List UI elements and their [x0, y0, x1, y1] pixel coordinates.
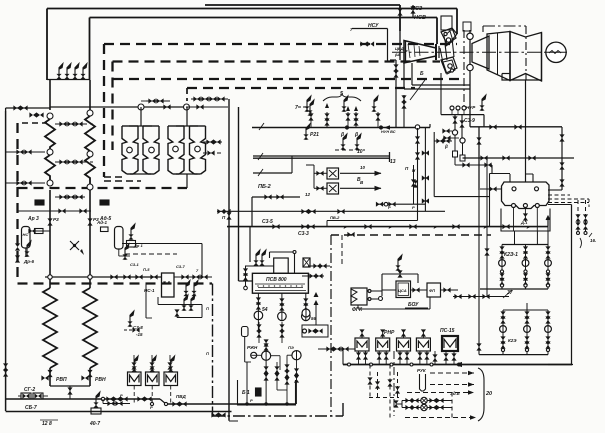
svg-text:П: П	[206, 351, 209, 356]
stub y276	[302, 273, 324, 278]
valve stack x277	[274, 362, 279, 390]
valve x455	[452, 116, 457, 123]
valves y227	[272, 224, 509, 229]
node bellows feed 1	[138, 104, 144, 110]
svg-text:П-5: П-5	[143, 267, 150, 272]
wire x479 drop	[478, 127, 480, 190]
wire main condensate y364	[343, 364, 572, 366]
labels on dashdot	[120, 306, 253, 410]
svg-text:РНР: РНР	[384, 330, 395, 336]
gland cluster circles	[450, 95, 486, 115]
gland circle 2	[460, 138, 465, 143]
deaerator vessel PSV-800	[252, 273, 308, 293]
svg-text:Б: Б	[420, 71, 424, 77]
LP condenser tub	[502, 74, 542, 81]
wire drop x404b	[403, 95, 405, 127]
valve x229 y215	[226, 212, 231, 219]
boiler column B main coil	[83, 288, 97, 368]
wire vertical x413	[411, 165, 416, 204]
PND3 vent	[401, 329, 406, 338]
dashed arrow 4	[405, 415, 476, 419]
drain pump 1	[262, 351, 271, 360]
label 54	[262, 307, 268, 313]
dashed reheat line 2	[113, 60, 441, 62]
valve stacks top	[256, 322, 284, 343]
bellows2 right valve stubs	[203, 139, 222, 144]
wire coil bottom bar	[50, 385, 90, 387]
svg-text:С3-9: С3-9	[464, 118, 475, 124]
wire fgk out bottom	[371, 298, 378, 300]
turbine HP body	[472, 36, 489, 69]
wire x229 to bottom	[229, 404, 238, 421]
heater PND-1	[355, 338, 369, 351]
bottom jog	[160, 399, 166, 404]
valves left edge bottom	[3, 363, 8, 376]
valves top of columns	[47, 217, 98, 226]
dashed reheat line 4	[187, 87, 415, 89]
stop valve linkage	[440, 28, 457, 74]
valve left stub a	[13, 105, 27, 110]
valve pair on dash-dot bottom	[211, 412, 225, 417]
valve cluster under A2	[55, 159, 85, 164]
svg-text:ПБ-2: ПБ-2	[258, 184, 271, 190]
wire NSU line	[350, 23, 388, 61]
wire x247 drop	[246, 362, 248, 404]
wire x202 drop	[201, 244, 203, 278]
svg-text:β: β	[444, 144, 448, 149]
dashed bellows bottom link 1	[104, 176, 126, 178]
safety flag valve 3	[72, 63, 79, 79]
label K2E-1	[504, 252, 518, 258]
svg-text:Р: Р	[389, 225, 392, 230]
PND3 legs	[397, 351, 409, 365]
svg-text:Р: Р	[250, 398, 253, 403]
wire vertical x238	[238, 107, 240, 281]
tank right bottom	[119, 244, 130, 260]
wire stub row y152	[6, 151, 45, 153]
bellows group1 top bar	[129, 125, 152, 127]
dashed arrow 1	[430, 371, 474, 375]
fgk ports	[368, 290, 371, 301]
extraction point circle 2	[467, 64, 473, 70]
dashed drain 3	[387, 365, 392, 421]
label NUNVS	[381, 130, 396, 134]
feed pump 2	[278, 312, 287, 321]
labels RVP RVN	[56, 377, 106, 383]
nodes y277	[48, 275, 92, 279]
dashed drain 1	[367, 365, 372, 398]
svg-text:РЖН: РЖН	[247, 345, 258, 350]
wire x413 link	[412, 5, 414, 18]
stop valve body lower	[441, 57, 457, 73]
dashed reheat line 3	[113, 78, 463, 80]
svg-text:β: β	[340, 132, 344, 138]
svg-text:С3-1: С3-1	[130, 262, 139, 267]
flags y310	[181, 295, 195, 311]
node bellows1 left	[127, 147, 133, 153]
frame B1	[238, 380, 296, 405]
wire k2e1 bottom bar	[480, 288, 548, 290]
svg-text:37: 37	[507, 290, 513, 296]
valve x462	[459, 120, 464, 127]
svg-text:К2Э: К2Э	[508, 338, 517, 343]
condenser drops	[514, 208, 538, 232]
gland left stubs	[442, 128, 459, 140]
bellows group2 top bar	[176, 125, 198, 127]
label PV-2	[330, 215, 340, 220]
node bou	[379, 297, 383, 301]
label BOU	[405, 302, 428, 308]
feed pump 3	[302, 312, 311, 321]
wire y364 left end	[342, 349, 344, 365]
vessel hatch dots	[258, 286, 303, 287]
condenser port 5	[535, 204, 539, 208]
valve stack x296	[294, 360, 299, 404]
wire bottom main 1	[6, 398, 160, 400]
svg-text:НСУ: НСУ	[368, 23, 379, 29]
wire y304	[158, 297, 202, 318]
valves on x404	[401, 95, 406, 108]
svg-text:ПВ-2: ПВ-2	[330, 215, 340, 220]
wire y127 ticks right	[489, 124, 521, 129]
heater PND-4	[416, 338, 430, 351]
condenser port 2	[535, 187, 539, 191]
wire line y220	[327, 211, 418, 226]
condenser port 4	[523, 204, 527, 208]
dashed blowdown header	[18, 282, 213, 284]
extraction riser valve 1	[304, 96, 313, 127]
deaerator top piping	[270, 251, 297, 274]
node bellows1 right	[149, 147, 155, 153]
deaerator drop 1	[256, 293, 261, 311]
PND4 vent	[421, 329, 426, 338]
HP heater PVD3	[164, 372, 178, 386]
SG-2 boxes	[18, 387, 48, 411]
svg-text:С3-7: С3-7	[176, 264, 185, 269]
label S3-3	[298, 231, 309, 237]
extraction riser valve 5	[371, 96, 380, 127]
valve cluster right of node2	[186, 96, 228, 109]
label RNR	[384, 330, 395, 336]
right cluster valves	[575, 214, 588, 234]
node B1	[87, 110, 93, 116]
deaerator dome	[274, 258, 289, 273]
PVD3 drain	[170, 386, 172, 405]
svg-text:54: 54	[262, 307, 268, 313]
dashed drain 2	[375, 372, 380, 398]
wire link y390	[277, 389, 287, 391]
brace 5	[323, 91, 361, 101]
svg-text:РВП: РВП	[56, 377, 67, 383]
wire vertical x229 low	[228, 227, 230, 420]
wire k2e2 bottom bar	[479, 354, 548, 356]
box FP	[427, 283, 441, 297]
wire bellows2 drop	[186, 174, 188, 188]
wire y197 drop	[251, 197, 253, 227]
tank left drop flag	[23, 241, 34, 264]
stop valve body upper	[441, 28, 456, 44]
wire x489 drop	[489, 174, 491, 228]
aux component x305	[303, 258, 310, 267]
PND1 vent	[359, 329, 364, 338]
svg-text:Ад-1: Ад-1	[96, 220, 108, 225]
extraction riser valve 3	[341, 96, 350, 127]
bellows2 right valve stubs b	[203, 150, 222, 155]
wire extraction line y197	[252, 196, 300, 198]
deaerator top flags	[245, 250, 274, 266]
label S3-9	[464, 118, 475, 124]
k2e2 pump column 1	[500, 310, 507, 355]
extraction point circle 1	[467, 33, 473, 39]
wire main steam line 2	[47, 9, 457, 81]
reheater bellows 1a	[122, 126, 138, 174]
wire x492 drop	[491, 165, 493, 174]
heater PND-3	[397, 338, 411, 351]
condenser port 1	[512, 187, 516, 191]
extraction riser valve 4	[353, 112, 358, 127]
k2e2 pump column 3	[545, 310, 552, 355]
tick y127	[259, 123, 264, 130]
PVD1 flag	[132, 356, 139, 372]
wire cold reheat y89	[404, 63, 470, 89]
svg-text:20: 20	[485, 391, 492, 397]
dash-dot x394	[393, 351, 395, 416]
svg-text:7: 7	[295, 105, 298, 111]
tank right top valvebox	[96, 220, 108, 232]
PVD3 flag	[168, 356, 175, 372]
box CSA	[396, 281, 411, 298]
feed pump 1	[254, 311, 263, 320]
HP heater PVD2	[146, 372, 160, 386]
turbine LP body	[510, 32, 542, 82]
wire line y204	[376, 202, 426, 207]
wire header y277	[45, 276, 162, 278]
b6 right line	[174, 274, 212, 279]
heater PS-15	[440, 328, 458, 351]
label K2E-2	[508, 338, 517, 343]
ticks y158	[480, 155, 535, 160]
dashed left drop	[15, 123, 20, 283]
node bellows2 right	[195, 146, 201, 152]
wire HP inlet from x457	[452, 34, 457, 40]
wire vertical x425	[422, 128, 429, 211]
label 20	[485, 391, 492, 397]
k2e1 pump column 2	[522, 245, 529, 290]
PND1 legs	[356, 351, 368, 365]
tank NS right	[115, 227, 124, 250]
svg-text:НУР: НУР	[466, 105, 476, 110]
svg-text:ПС-15: ПС-15	[440, 328, 455, 334]
bou bottom line	[358, 297, 430, 309]
valve stack x287	[284, 364, 289, 404]
valve between 4 and 5	[432, 351, 437, 365]
svg-text:РЗ: РЗ	[53, 217, 59, 222]
label LVD	[176, 394, 186, 399]
deaerator drop 3	[303, 293, 308, 312]
tick y173	[258, 169, 263, 176]
node A1	[47, 113, 53, 119]
wire safety-valve header	[47, 79, 90, 81]
k2e1 pump column 3	[545, 245, 552, 290]
boiler column B upper coil	[85, 116, 95, 184]
wire gland line y158	[463, 157, 575, 159]
gland circle 1	[452, 130, 457, 135]
node y127 x417	[415, 125, 419, 129]
PS15 legs	[443, 351, 456, 365]
wire deaerator feed drop	[249, 227, 251, 262]
HP heater PVD1	[128, 372, 142, 386]
PND2 legs	[377, 351, 389, 365]
crossover dash-dot	[483, 26, 526, 80]
deaerator drop 2	[279, 293, 284, 312]
label PI-5	[130, 262, 150, 272]
valve on line 3 right	[410, 6, 415, 13]
tick y157	[258, 153, 263, 160]
wire gland header y115	[441, 73, 484, 127]
dashed drain valves right	[0, 0, 1, 1]
dash-dot bottom line	[213, 415, 344, 417]
node bellows2 left	[173, 146, 179, 152]
PVD extra valves	[131, 362, 172, 369]
valve cluster y399	[101, 396, 130, 406]
wire k2e1 top bar	[502, 244, 548, 246]
ejector arrow B	[340, 180, 382, 191]
svg-text:К2Э-1: К2Э-1	[504, 252, 518, 258]
reheater bellows 1b	[143, 126, 159, 174]
valve x479 y347	[476, 343, 481, 350]
dashed arrow 2	[430, 382, 474, 386]
svg-text:40-7: 40-7	[89, 421, 100, 427]
valves y197	[264, 194, 283, 199]
label E diag	[410, 71, 425, 100]
node B3	[87, 184, 93, 190]
svg-text:БОУ: БОУ	[408, 302, 419, 308]
flow tags y227	[344, 225, 530, 230]
arrowhead y364 left	[455, 362, 462, 367]
wire extraction line y127	[252, 124, 430, 128]
label B header	[357, 177, 361, 183]
svg-text:РВН: РВН	[95, 377, 106, 383]
safety flag valve 4	[80, 63, 87, 79]
boiler column A main coil	[43, 288, 57, 368]
svg-text:12 8: 12 8	[42, 421, 52, 427]
wire extraction drop pipe	[469, 30, 471, 127]
wire extraction line y173	[253, 172, 292, 174]
label 13	[390, 159, 396, 165]
makeup line a	[402, 397, 452, 403]
b6 outlet flags	[183, 280, 198, 296]
bellows group1 bottom bar	[130, 173, 151, 175]
valve stack x266	[264, 339, 269, 404]
bracket 20	[478, 368, 484, 421]
wire fgk out top	[371, 290, 382, 292]
wire vertical x229	[228, 99, 230, 227]
k2e2 pump column 2	[524, 310, 531, 355]
turbine HP nozzle cone	[404, 41, 436, 64]
dashed drop x589	[588, 199, 590, 207]
dashed reheat vertical 4	[186, 88, 188, 101]
svg-text:НУН ВС: НУН ВС	[381, 130, 396, 134]
box B-1	[242, 388, 261, 396]
wire x487 drop	[484, 158, 489, 297]
valves y277	[110, 274, 157, 279]
wire pump1 drop	[257, 320, 259, 330]
wire left top stub	[6, 108, 50, 111]
HP nozzle internal marks	[394, 44, 420, 58]
svg-text:П: П	[206, 306, 209, 311]
riser arrowheads	[325, 103, 358, 111]
wire extraction line y127 right	[470, 126, 562, 128]
label PB-2	[258, 184, 271, 190]
svg-text:Р21: Р21	[310, 132, 319, 138]
wire bottom main 2	[166, 403, 296, 405]
svg-text:-15: -15	[136, 332, 143, 337]
dashed y392 right	[407, 391, 470, 396]
wire lpheater suction	[318, 346, 355, 351]
safety flag valve 1	[56, 63, 63, 79]
svg-text:С3-5: С3-5	[262, 219, 273, 225]
wire gland line y165	[455, 162, 492, 167]
drain pump 2	[288, 345, 301, 360]
wire pvd feed	[134, 355, 170, 361]
svg-text:ПЭ: ПЭ	[288, 345, 294, 350]
bou loop top	[382, 255, 418, 296]
label 10 header	[357, 149, 363, 155]
svg-text:ПСЗ: ПСЗ	[411, 6, 423, 12]
drain box Ar3	[27, 200, 44, 222]
label R21	[303, 124, 319, 140]
svg-text:ПВД: ПВД	[176, 394, 186, 399]
generator G1	[546, 42, 567, 62]
wire bottom main 3	[6, 411, 232, 413]
wire y317	[174, 309, 202, 317]
node A3	[47, 180, 53, 186]
wire x238 elbow	[239, 280, 253, 282]
svg-text:Р: Р	[412, 205, 415, 210]
svg-text:Б 1: Б 1	[242, 390, 250, 396]
label 37	[503, 290, 513, 298]
ejector arrow 10	[340, 165, 382, 176]
component dr2	[127, 224, 144, 248]
svg-text:С3-3: С3-3	[298, 231, 309, 237]
dashed gland drains right	[578, 200, 586, 232]
boiler column A pipe	[49, 80, 51, 386]
reheater bellows 2b	[190, 126, 206, 174]
wire y150 stub	[335, 149, 365, 151]
svg-text:β: β	[354, 132, 358, 138]
wire condensate drop	[525, 80, 527, 182]
makeup left stubs	[393, 400, 402, 407]
wire header y107	[50, 106, 186, 108]
junction dots y127	[345, 125, 390, 129]
svg-text:ЦВД: ЦВД	[395, 46, 404, 51]
wire x562 drop	[548, 127, 562, 190]
PVD2 flag	[150, 356, 157, 372]
nodes y364	[348, 363, 461, 366]
label P mid	[405, 166, 409, 171]
turbine shaft line	[392, 51, 546, 53]
heater PND-2	[376, 338, 390, 351]
valves on dashed y44	[360, 41, 374, 46]
label P y211	[222, 215, 226, 220]
gland frame valves	[434, 138, 452, 149]
HP throttle bar	[436, 44, 439, 60]
condenser inlet stub	[490, 174, 534, 183]
small box at pipe top	[463, 22, 471, 31]
wire x146 drop	[146, 284, 152, 319]
wire line 37	[453, 294, 509, 299]
svg-text:ЦСА: ЦСА	[398, 288, 407, 293]
